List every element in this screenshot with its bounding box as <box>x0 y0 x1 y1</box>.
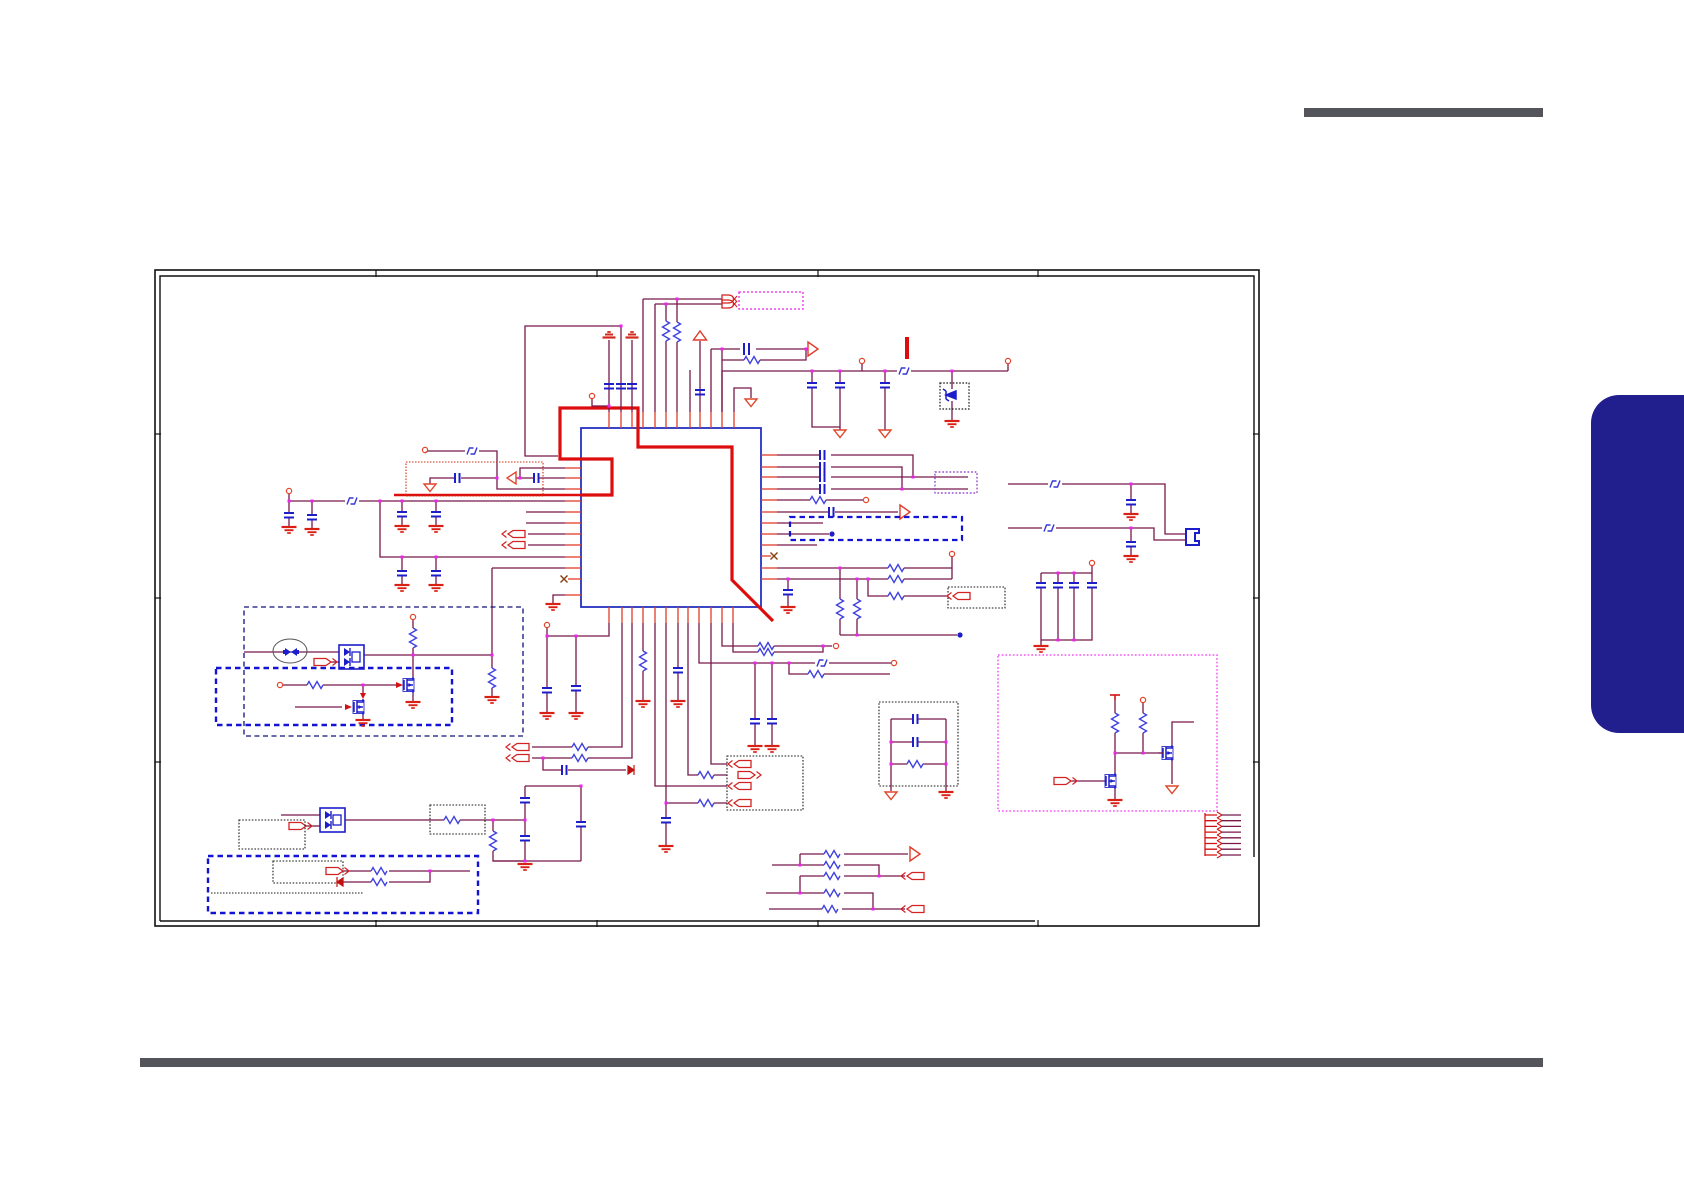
wire hook to gnd triangle <box>734 388 751 412</box>
no-connect X pin579 <box>561 576 568 583</box>
resistor R17 <box>758 643 774 650</box>
wire cap net y512 <box>777 511 898 513</box>
wire resistor branch x857 <box>856 579 858 635</box>
capacitor C7 <box>835 383 845 388</box>
junction dots <box>496 477 499 480</box>
testpoint circle TP14 <box>1140 697 1145 702</box>
resistor R10 <box>371 879 387 886</box>
wire resistor spur y674 <box>789 663 890 674</box>
capacitor C15 <box>455 473 460 483</box>
capacitor C27 <box>820 450 825 460</box>
gate arrow A6 <box>345 704 352 710</box>
wire resistor to gnd branch <box>491 655 493 696</box>
wire ferrite net <box>425 451 565 489</box>
dashed block outline B2 (bright blue) <box>216 668 452 725</box>
wire cap branch <box>288 501 290 526</box>
output triangle V6 <box>910 847 920 861</box>
junction dots pink block <box>1114 752 1117 755</box>
ground bars G11 <box>546 604 561 610</box>
dashed block outline B1 <box>244 607 523 736</box>
capacitor C22 <box>562 765 567 775</box>
wire RC loop <box>722 349 806 412</box>
ferrite bead FB4 <box>817 660 827 667</box>
capacitor C33 <box>1036 583 1046 588</box>
input arrow A17 <box>947 593 970 600</box>
receiver symbol U2 <box>722 295 737 303</box>
wire cap row1 <box>891 718 946 720</box>
ground bars G14 <box>356 720 371 726</box>
ground bars G3 <box>945 421 960 427</box>
testpoint circle TP2 <box>859 358 864 363</box>
ferrite bead FB6 <box>1044 525 1054 532</box>
wire row4 <box>766 893 873 909</box>
input arrow A13 <box>728 761 751 768</box>
TVS diode D1 box <box>940 383 969 409</box>
resistor R21 <box>888 576 904 583</box>
ferrite bead FB2 <box>347 498 357 505</box>
resistor R24 <box>888 593 904 600</box>
capacitor C36 <box>1087 583 1097 588</box>
wire cap branch low <box>435 557 437 584</box>
power arrow V4 at RC <box>808 342 818 356</box>
junction dot TVS <box>951 370 954 373</box>
wire stub pin 512 <box>526 511 565 513</box>
wire lower mosfet gate <box>295 706 342 708</box>
capacitor C3 <box>627 384 637 389</box>
wire gate branch down <box>362 685 364 693</box>
wire pack2 input top <box>281 814 320 816</box>
wire cap branch <box>401 501 403 525</box>
resistor R15 <box>698 800 714 807</box>
input arrow A11 <box>506 755 529 762</box>
power arrow V3 <box>694 331 707 340</box>
diode marker A12 <box>628 765 634 775</box>
right blue tab <box>1591 395 1684 733</box>
wire right rail <box>945 719 947 791</box>
capacitor C25 <box>750 719 760 724</box>
dashed box B6 <box>790 517 962 540</box>
testpoint circle TP8 <box>544 622 549 627</box>
ground bars G22 <box>765 746 780 752</box>
wire testpoint stub right <box>1007 364 1009 371</box>
mosfet Q3 <box>1162 745 1173 761</box>
wire VDD rail right <box>631 340 633 412</box>
wire gate resistor net <box>283 684 396 686</box>
wire VCC rail <box>289 494 565 501</box>
resistor R_xtal1 <box>665 304 667 412</box>
diode pack U6 <box>320 808 345 832</box>
junction dot <box>429 870 432 873</box>
resistor R6 <box>307 682 323 689</box>
red dotted strap box <box>406 462 543 496</box>
capacitor C21 <box>571 686 581 691</box>
capacitor C26 <box>767 719 777 724</box>
ladder box L4 <box>879 702 958 786</box>
wire pin688 to arrow <box>688 623 727 775</box>
wire arrow net 534 <box>528 533 565 535</box>
wire pullup 1 <box>1114 700 1116 753</box>
resistor R5 <box>489 668 496 688</box>
capacitor C34 <box>1053 583 1063 588</box>
bottom gray rule <box>140 1058 1543 1067</box>
wire pin622 net <box>532 623 622 747</box>
resistor R_xtal2 <box>676 299 678 412</box>
wire q3 drain <box>1172 722 1194 745</box>
highlighted thick red route <box>394 494 581 496</box>
resistor R9 <box>371 868 387 875</box>
ground bars G20 <box>671 701 686 707</box>
capacitor C6 <box>807 383 817 388</box>
zener diode D1 <box>943 389 956 401</box>
wire net B y528 <box>1008 528 1186 540</box>
capacitor C9 <box>284 513 294 518</box>
op-amp U1 main IC body <box>581 428 761 607</box>
wire bus cap net 2 <box>777 467 902 489</box>
wire cap into node <box>430 478 497 484</box>
resistor R30 <box>824 890 840 897</box>
testpoint circle TP7 <box>277 682 282 687</box>
ferrite bead FB5 <box>1050 481 1060 488</box>
ground bars G13 <box>485 697 500 703</box>
wire buffer top <box>520 468 565 478</box>
input arrow A3 <box>314 659 337 666</box>
mosfet Q2 <box>353 699 364 715</box>
schematic frame outer <box>155 270 1259 926</box>
power stub T1 <box>1110 695 1120 700</box>
ground bars G8 <box>395 585 410 591</box>
ground bars G9 <box>429 585 444 591</box>
capacitor C1 <box>604 384 614 389</box>
wire gate rail <box>1115 752 1158 754</box>
capacitor C37 <box>1126 500 1136 505</box>
wire loop to highlighted net <box>525 326 621 456</box>
wire net A y484 <box>1008 484 1186 534</box>
wire stub y534 <box>777 533 829 535</box>
resistor R31 <box>822 906 838 913</box>
capacitor C40 <box>913 737 918 747</box>
ground triangle G10 <box>424 484 436 492</box>
resistor R3 in RC loop <box>744 357 760 364</box>
wire arrow net 545 <box>528 544 565 546</box>
resistor R26 vertical <box>1140 713 1147 733</box>
ground bars G26 <box>1124 556 1139 562</box>
ferrite bead FB3 <box>467 448 477 455</box>
capacitor C2 <box>616 384 626 389</box>
top pins <box>608 412 610 428</box>
wire mosfet source to gnd <box>412 693 414 701</box>
resistor R14 <box>698 772 714 779</box>
wire VDD rail left <box>608 340 610 412</box>
wire q4 drain up <box>1114 753 1116 773</box>
capacitor C14 <box>431 571 441 576</box>
capacitor C35 <box>1069 583 1079 588</box>
capacitor C12 <box>431 512 441 517</box>
power symbol V1 <box>603 332 616 338</box>
ground bars G4 <box>282 527 297 533</box>
capacitor C10 <box>307 515 317 520</box>
mosfet Q1 <box>403 677 414 693</box>
wire bus cap net 3 <box>777 476 968 478</box>
wire TVS branch <box>951 371 953 420</box>
connector J1 (blue) <box>1186 529 1199 545</box>
wire stub y523 <box>777 522 823 524</box>
wire pin711 to arrow <box>711 623 727 764</box>
wire cap ladder top <box>525 785 581 787</box>
wire cap branch A <box>1130 484 1132 513</box>
wire cap legs <box>1041 573 1092 645</box>
input arrow A16 <box>728 800 751 807</box>
crystal label box (magenta dashed) <box>739 292 803 309</box>
wire power arrow net <box>699 341 701 412</box>
pink dotted block outline B8 <box>998 655 1217 811</box>
resistor R29 <box>824 873 840 880</box>
wire RC reset net <box>711 349 806 412</box>
ground bars G5 <box>305 529 320 535</box>
capacitor C38 <box>1126 542 1136 547</box>
right pins <box>761 454 777 456</box>
resistor R2 zigzag <box>674 322 681 342</box>
wire resistor net y500 <box>777 499 863 501</box>
wire cap branch x576 <box>575 636 577 712</box>
ground bars G19 <box>659 846 674 852</box>
wire cap branch C6 <box>812 371 840 427</box>
resistor R18 <box>758 649 774 656</box>
junction dots top bundle <box>665 303 668 306</box>
wire cap branch B <box>1130 528 1132 555</box>
power symbol V2 <box>626 332 639 338</box>
capacitor C8 <box>880 383 890 388</box>
IC pin stubs <box>565 412 777 623</box>
wire pullup 2 <box>1142 703 1144 753</box>
ground bars G17 <box>569 713 584 719</box>
wire cap row2 <box>891 741 946 743</box>
input arrow A2 <box>502 542 525 549</box>
resistor R23 vertical <box>854 599 861 619</box>
testpoint circle TP1 <box>589 393 594 398</box>
wire q3 source <box>1171 761 1173 784</box>
wire pulldown net y568 <box>777 557 952 579</box>
wire bank top rail <box>1041 566 1092 573</box>
input arrow A10 <box>506 744 529 751</box>
wire row5 <box>769 908 905 910</box>
output arrow V5 <box>900 505 910 519</box>
wire crystal net XIN <box>643 299 722 412</box>
capacitor C17 <box>520 798 530 803</box>
receiver symbol U3 <box>722 300 737 308</box>
capacitor C20 <box>542 688 552 693</box>
wire pack2 output <box>345 819 525 821</box>
dotted leader line <box>211 892 363 894</box>
junction dots rail <box>288 500 291 503</box>
wire sub-rail branch <box>380 501 565 557</box>
wire cap branch C8 <box>884 371 886 430</box>
testpoint circle TP3 <box>1005 358 1010 363</box>
wire stub pin <box>689 370 691 412</box>
wire crystal net XOUT <box>655 304 722 412</box>
wire stub y545 <box>777 544 817 546</box>
ground bars G28 <box>1108 800 1123 806</box>
testpoint circle TP5 <box>422 447 427 452</box>
wire arrow to pack <box>331 661 339 663</box>
connector spine <box>1204 813 1206 856</box>
connector teeth <box>1205 815 1217 855</box>
junction dots <box>1130 483 1133 486</box>
arrow box B7 <box>948 587 1005 608</box>
junction dots <box>580 785 583 788</box>
capacitor C5 series in RC <box>744 343 749 355</box>
ground bars G16 <box>540 713 555 719</box>
wire gnd hook pin 595 <box>553 595 565 603</box>
wire cap branch x788 <box>787 579 789 606</box>
testpoint circle TP9 <box>891 660 896 665</box>
testpoint circle TP13 <box>1089 560 1094 565</box>
capacitor C13 <box>397 571 407 576</box>
wire main rail <box>722 371 1008 412</box>
wire opto input <box>244 651 339 653</box>
resistor R4 <box>410 628 417 648</box>
input arrow A20 <box>901 906 924 913</box>
resistor R8 vertical <box>490 831 497 851</box>
connector stub wires <box>1222 815 1241 855</box>
no-connect X right <box>771 553 778 560</box>
mosfet Q4 <box>1105 773 1116 789</box>
wire net 568 to lower block <box>492 568 565 655</box>
resistor R32 <box>907 761 923 768</box>
border ticks <box>155 270 1259 927</box>
wire pin678 cap gnd <box>677 623 679 700</box>
crystal ellipse E1 <box>273 639 307 663</box>
wire cap branch C7 <box>839 371 841 430</box>
wire net y579 <box>777 578 952 580</box>
wire buffer out <box>516 477 565 479</box>
testpoint circle TP4 <box>286 488 291 493</box>
wire bottom leg <box>493 860 581 862</box>
ground triangle G1 <box>834 430 846 438</box>
ground bars G21 <box>748 746 763 752</box>
gate arrow A4 <box>396 682 403 688</box>
diode arrow A9 <box>337 877 343 887</box>
wire divider resistor <box>493 820 525 861</box>
wire lower mosfet source <box>362 715 364 719</box>
capacitor C39 <box>913 714 918 724</box>
resistor R13 vertical <box>640 651 647 671</box>
wire arrow spur y596 <box>868 579 948 596</box>
wire cap branch low <box>401 557 403 584</box>
testpoint circle TP10 <box>833 643 838 648</box>
bottom pins <box>608 607 610 623</box>
wire row3 <box>800 876 905 893</box>
capacitor C24 <box>673 668 683 673</box>
diode bowtie D2 <box>283 648 299 656</box>
junction dots bottom <box>546 635 549 638</box>
wire pin632 net <box>532 623 632 758</box>
purple label box B5 <box>935 472 977 493</box>
capacitor C19 <box>576 822 586 827</box>
testpoint circle TP6 <box>410 614 415 619</box>
capacitor C23 <box>661 818 671 823</box>
resistor R25 vertical <box>1112 713 1119 733</box>
ground triangle G29 <box>885 792 897 800</box>
capacitor C32 <box>783 590 793 595</box>
wire pin666 net <box>666 623 727 803</box>
input arrow A15 <box>728 783 751 790</box>
wire pin655 to arrow <box>655 623 727 786</box>
wire row2 <box>772 865 879 876</box>
capacitor C30 <box>820 484 825 494</box>
resistor R19 <box>810 497 826 504</box>
junction dots right <box>912 476 915 479</box>
wire bus cap net 4 <box>777 488 968 490</box>
diode pack U5 <box>339 645 364 669</box>
capacitor C29 <box>820 472 825 482</box>
ferrite bead FB1 <box>899 368 909 375</box>
capacitor C31 <box>829 507 834 517</box>
junction dot <box>492 819 495 822</box>
capacitor C11 <box>397 512 407 517</box>
capacitor C18 <box>520 836 530 841</box>
resistor R7 <box>444 817 460 824</box>
label box (dotted) L1 <box>239 820 305 849</box>
wire q4 gate <box>1071 780 1106 782</box>
resistor R1 zigzag <box>663 321 670 341</box>
schematic frame inner <box>160 276 1254 921</box>
wire pin733 resistor row <box>733 623 823 652</box>
wire row1 <box>800 854 908 865</box>
junction dots ladder <box>890 741 893 744</box>
testpoint circle TP12 <box>949 551 954 556</box>
wire pin609 elbow <box>547 623 609 636</box>
ground bars G25 <box>1124 514 1139 520</box>
input arrow A7 <box>289 823 312 830</box>
wire bus cap net 1 <box>777 455 913 477</box>
resistor R12 <box>572 755 588 762</box>
ground bars G30 <box>939 792 954 798</box>
ground triangle under hook <box>745 399 757 407</box>
wire arrow to pack2 <box>306 825 320 827</box>
wire cap branch <box>435 501 437 525</box>
wire resistor branch x840 <box>839 568 841 635</box>
capacitor C28 <box>820 462 825 472</box>
gate arrow A5 down <box>360 693 366 699</box>
wire testpoint stub TP1 <box>592 399 609 406</box>
wire sense net 1 <box>343 870 470 872</box>
left pins <box>565 467 581 469</box>
wire left leg <box>524 786 526 861</box>
net end dot blue <box>957 632 962 637</box>
wire testpoint stub <box>861 364 863 371</box>
wire right leg <box>580 786 582 861</box>
ground bars G15 <box>518 864 533 870</box>
output arrow A14 <box>738 772 761 779</box>
wire cap branch x547 <box>546 636 548 712</box>
wire res row <box>891 763 946 765</box>
ground bars G6 <box>395 526 410 532</box>
output arrow A8 <box>326 868 349 875</box>
wire sense net 2 <box>343 871 430 882</box>
ground bars G7 <box>429 526 444 532</box>
wire pin643 to resistor gnd <box>642 623 644 700</box>
wire stub pin 523 <box>526 522 565 524</box>
arrow box B4 <box>727 756 803 810</box>
wire left rail <box>890 719 892 791</box>
wire cap branch x666 <box>665 803 667 845</box>
ground triangle G27 <box>1166 786 1178 794</box>
ground bars G18 <box>636 701 651 707</box>
buffer triangle U4 <box>507 472 516 484</box>
wire cap spur y770 <box>543 758 626 770</box>
resistor R28 <box>824 862 840 869</box>
resistor R16 <box>808 671 824 678</box>
